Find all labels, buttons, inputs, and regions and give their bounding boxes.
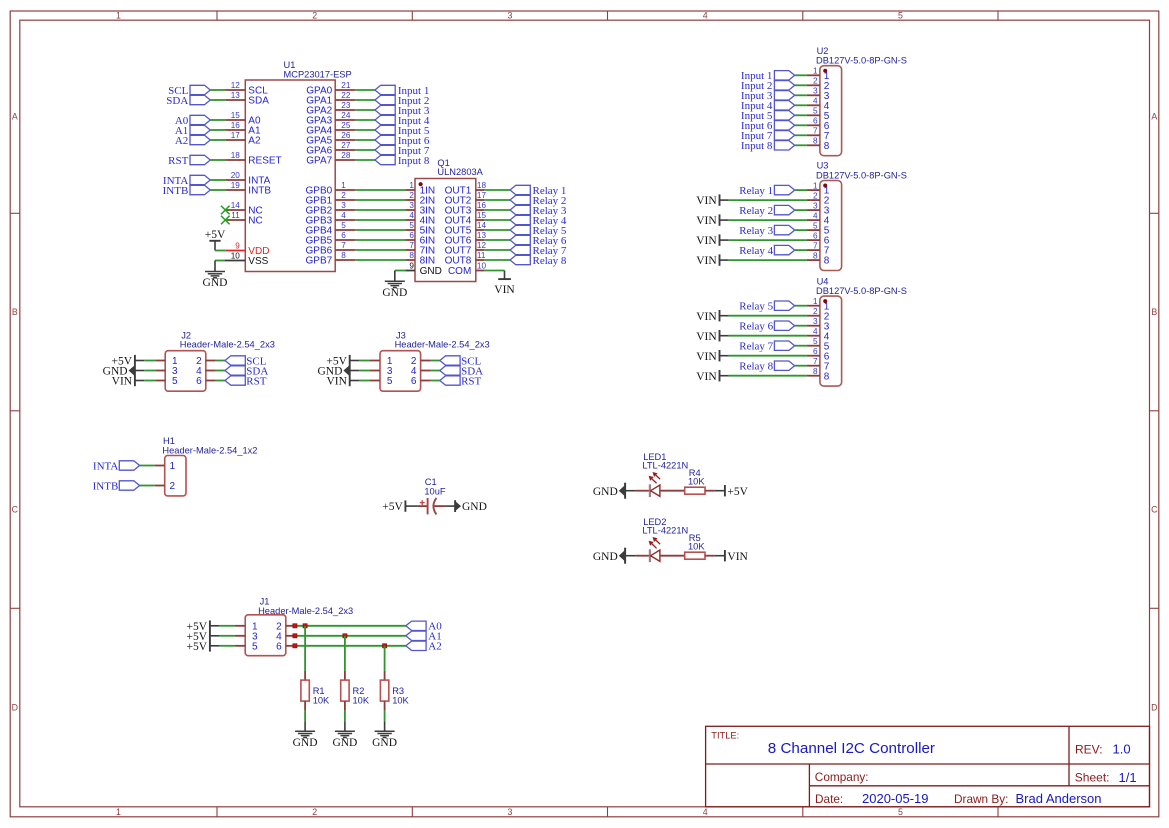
net port Relay 6 — [510, 235, 567, 247]
svg-text:VIN: VIN — [326, 376, 347, 388]
svg-text:2020-05-19: 2020-05-19 — [862, 791, 929, 806]
U1 pin 10 VSS — [225, 260, 246, 262]
U3 pin 4 — [807, 219, 820, 221]
svg-text:Relay 3: Relay 3 — [739, 225, 773, 237]
wire OUT3 to Relay 3 — [484, 209, 510, 211]
svg-text:Relay 5: Relay 5 — [739, 301, 773, 313]
svg-text:28: 28 — [341, 151, 351, 160]
svg-text:Header-Male-2.54_2x3: Header-Male-2.54_2x3 — [180, 340, 275, 350]
svg-text:8 Channel I2C Controller: 8 Channel I2C Controller — [768, 740, 935, 757]
power flag GND at J2 pin 3 — [103, 365, 135, 377]
net port A0 — [406, 621, 442, 633]
U4 pin 4 — [807, 335, 820, 337]
svg-text:4: 4 — [813, 327, 818, 336]
svg-text:VIN: VIN — [696, 371, 717, 383]
junction at J1 pin 6 — [293, 644, 297, 648]
net port Relay 5 at U4 — [739, 301, 794, 313]
svg-text:1: 1 — [813, 181, 818, 190]
svg-text:26: 26 — [341, 131, 351, 140]
svg-text:10K: 10K — [688, 541, 705, 551]
svg-text:VIN: VIN — [696, 235, 717, 247]
wire SDA to U1 — [210, 99, 225, 101]
svg-text:6: 6 — [411, 376, 417, 387]
U4 pin 6 — [807, 355, 820, 357]
wire A1 down to R2 — [344, 636, 346, 671]
net port A1 — [406, 631, 442, 643]
net port INTB at H1 — [93, 480, 140, 492]
svg-text:17: 17 — [477, 191, 487, 200]
svg-text:MCP23017-ESP: MCP23017-ESP — [284, 70, 352, 80]
net port Input 8 at U2 — [741, 140, 795, 152]
Q1 pin 16 OUT3 — [476, 209, 485, 211]
power flag VIN at U3 pin 2 — [696, 194, 719, 207]
net port Relay 7 — [510, 245, 567, 257]
svg-text:SDA: SDA — [248, 96, 269, 107]
svg-text:18: 18 — [477, 181, 487, 190]
svg-text:6: 6 — [813, 117, 818, 126]
U3 pin 5 — [807, 229, 820, 231]
svg-text:1: 1 — [409, 181, 414, 190]
wire LED1 to R4 — [660, 490, 685, 492]
net port Relay 1 — [510, 185, 566, 197]
svg-text:VIN: VIN — [696, 311, 717, 323]
U1 pin 20 INTA — [225, 179, 245, 181]
svg-text:VIN: VIN — [696, 215, 717, 227]
Q1 pin 4 4IN — [405, 219, 415, 221]
svg-text:10K: 10K — [353, 696, 370, 706]
U1 pin 22 GPA1 — [335, 99, 355, 101]
svg-text:7: 7 — [341, 241, 346, 250]
header J2 Header-Male-2.54_2x3 — [165, 330, 275, 391]
svg-text:NC: NC — [248, 216, 262, 227]
svg-text:R3: R3 — [392, 686, 404, 696]
wire A0 to U1 — [210, 119, 225, 121]
svg-text:RST: RST — [461, 375, 481, 387]
svg-text:1.0: 1.0 — [1113, 742, 1131, 757]
Q1 pin 14 OUT5 — [476, 229, 485, 231]
svg-text:1: 1 — [116, 10, 121, 20]
wire Q1 COM to VIN — [484, 271, 504, 279]
power flag VIN at U4 pin 2 — [696, 310, 719, 323]
net port SDA at J2 — [225, 365, 268, 377]
net port Relay 8 at U4 — [739, 361, 794, 373]
svg-text:8: 8 — [813, 251, 818, 260]
wire GPA7 to Input 8 — [355, 159, 375, 161]
wire +5V to J1 — [210, 645, 245, 647]
net port Input 3 at U2 — [741, 90, 795, 102]
wire A2 to U1 — [210, 139, 225, 141]
svg-text:8: 8 — [824, 371, 830, 382]
svg-text:Input 8: Input 8 — [398, 155, 430, 167]
wire OUT7 to Relay 7 — [484, 249, 510, 251]
net port Input 8 — [375, 155, 430, 167]
svg-text:C: C — [1151, 504, 1158, 514]
svg-text:8IN: 8IN — [420, 256, 436, 267]
wire power to J3 — [350, 380, 380, 382]
junction at J1 pin 4 — [293, 634, 297, 638]
wire GPB7 to Q1 8IN — [355, 259, 405, 261]
net port Input 6 — [375, 135, 430, 147]
wire Relay 2 to U3 pin 3 — [795, 209, 807, 211]
net port Relay 5 — [510, 225, 567, 237]
U1 pin 15 A0 — [225, 119, 245, 121]
U4 pin 7 — [807, 365, 820, 367]
wire OUT6 to Relay 6 — [484, 239, 510, 241]
wire J1 pin 2 to A0 — [286, 625, 406, 627]
power flag VIN at U4 pin 6 — [696, 350, 719, 363]
svg-text:+5V: +5V — [205, 229, 226, 241]
svg-text:Brad Anderson: Brad Anderson — [1016, 791, 1102, 806]
net port Input 6 at U2 — [741, 120, 795, 132]
svg-text:Relay 4: Relay 4 — [739, 245, 773, 257]
wire GPB0 to Q1 1IN — [355, 189, 405, 191]
net port Input 4 — [375, 115, 430, 127]
wire INTB to H1 — [140, 485, 165, 487]
svg-text:3: 3 — [341, 201, 346, 210]
svg-text:GND: GND — [420, 266, 442, 277]
net port Input 3 — [375, 105, 430, 117]
header H1 Header-Male-2.54_1x2 — [162, 436, 257, 496]
Q1 pin 8 8IN — [405, 259, 415, 261]
Q1 pin 12 OUT7 — [476, 249, 485, 251]
Q1 pin 3 3IN — [405, 209, 415, 211]
ground symbol at R3 — [372, 731, 397, 749]
wire INTA to H1 — [140, 465, 165, 467]
svg-text:DB127V-5.0-8P-GN-S: DB127V-5.0-8P-GN-S — [816, 286, 907, 296]
svg-text:B: B — [1151, 307, 1157, 317]
wire VIN to U4 pin 2 — [720, 315, 807, 317]
svg-text:A2: A2 — [175, 135, 188, 147]
svg-text:14: 14 — [477, 221, 487, 230]
svg-text:D: D — [1151, 702, 1157, 712]
wire OUT4 to Relay 4 — [484, 219, 510, 221]
net port Relay 7 at U4 — [739, 341, 794, 353]
svg-text:INTA: INTA — [93, 460, 118, 472]
svg-text:1/1: 1/1 — [1119, 770, 1137, 785]
wire GPA6 to Input 7 — [355, 149, 375, 151]
svg-text:Sheet:: Sheet: — [1075, 771, 1110, 785]
svg-text:VIN: VIN — [696, 351, 717, 363]
net port RST at J3 — [440, 375, 482, 387]
svg-text:Relay 8: Relay 8 — [739, 361, 773, 373]
svg-text:VIN: VIN — [696, 255, 717, 267]
wire Input 3 to U2 pin 3 — [795, 94, 807, 96]
svg-text:11: 11 — [231, 211, 240, 220]
wire OUT8 to Relay 8 — [484, 259, 510, 261]
wire LED2 to R5 — [660, 555, 685, 557]
svg-text:GND: GND — [593, 486, 618, 498]
U1 pin 27 GPA6 — [335, 149, 355, 151]
net port SCL at J3 — [440, 355, 482, 367]
U1 pin 25 GPA4 — [335, 129, 355, 131]
svg-text:21: 21 — [341, 81, 351, 90]
svg-text:C: C — [12, 504, 19, 514]
wire +5V to J1 — [210, 625, 245, 627]
svg-text:5: 5 — [387, 376, 393, 387]
svg-text:13: 13 — [231, 91, 241, 100]
U1 pin 13 SDA — [225, 99, 245, 101]
net port Input 2 at U2 — [741, 80, 795, 92]
U1 pin 14 NC (no connect) — [225, 209, 245, 211]
U1 pin 28 GPA7 — [335, 159, 355, 161]
svg-text:Relay 8: Relay 8 — [533, 255, 567, 267]
ground symbol at Q1 — [382, 281, 407, 299]
svg-text:4: 4 — [703, 10, 708, 20]
svg-text:2: 2 — [813, 191, 818, 200]
power flag GND at C1 — [455, 500, 487, 513]
power flag VIN at U3 pin 8 — [696, 254, 719, 267]
net port Input 4 at U2 — [741, 100, 795, 112]
svg-text:4: 4 — [703, 807, 708, 817]
wire Input 6 to U2 pin 6 — [795, 124, 807, 126]
U2 pin 8 — [807, 144, 820, 146]
svg-text:REV:: REV: — [1075, 742, 1103, 756]
svg-text:10uF: 10uF — [424, 486, 446, 496]
company field — [815, 770, 869, 784]
svg-text:23: 23 — [341, 101, 351, 110]
wire GPA4 to Input 5 — [355, 129, 375, 131]
U2 pin 7 — [807, 134, 820, 136]
wire GPA1 to Input 2 — [355, 99, 375, 101]
svg-text:16: 16 — [231, 121, 241, 130]
wire power to J3 — [350, 360, 380, 362]
U1 pin 3 GPB2 — [335, 209, 355, 211]
wire GND to LED1 — [625, 490, 650, 492]
svg-text:7: 7 — [813, 241, 818, 250]
net port INTB — [163, 185, 211, 197]
wire Input 7 to U2 pin 7 — [795, 134, 807, 136]
U1 pin 4 GPB3 — [335, 219, 355, 221]
svg-text:5: 5 — [252, 641, 258, 652]
wire J1 pin 6 to A2 — [286, 645, 406, 647]
Q1 pin 11 OUT8 — [476, 259, 485, 261]
wire power to J2 — [135, 370, 165, 372]
wire R5 to VIN — [705, 555, 725, 557]
power flag VIN at J3 pin 5 — [326, 376, 347, 388]
U1 pin 12 SCL — [225, 89, 245, 91]
svg-text:4: 4 — [341, 211, 346, 220]
U1 pin 6 GPB5 — [335, 239, 355, 241]
power flag +5V at C1 — [382, 500, 405, 513]
Q1 pin 7 7IN — [405, 249, 415, 251]
resistor R3 10K — [380, 671, 409, 711]
wire J2 to RST — [206, 380, 225, 382]
svg-text:B: B — [12, 307, 18, 317]
svg-text:1: 1 — [813, 297, 818, 306]
svg-text:Drawn By:: Drawn By: — [954, 792, 1008, 806]
svg-text:1: 1 — [813, 67, 818, 76]
svg-text:D: D — [12, 702, 18, 712]
svg-text:6: 6 — [276, 641, 282, 652]
wire GPB6 to Q1 7IN — [355, 249, 405, 251]
svg-text:5: 5 — [172, 376, 178, 387]
wire Relay 1 to U3 pin 1 — [795, 189, 807, 191]
svg-text:U2: U2 — [817, 46, 829, 56]
U1 pin 23 GPA2 — [335, 109, 355, 111]
svg-text:3: 3 — [813, 317, 818, 326]
U4 pin 1 — [807, 305, 820, 307]
svg-text:A2: A2 — [428, 641, 441, 653]
svg-text:2: 2 — [341, 191, 346, 200]
svg-text:3: 3 — [409, 201, 414, 210]
wire GPA2 to Input 3 — [355, 109, 375, 111]
Q1 pin 13 OUT6 — [476, 239, 485, 241]
resistor R4 10K — [685, 468, 706, 494]
U1 pin 2 GPB1 — [335, 199, 355, 201]
title text — [711, 731, 935, 757]
svg-text:17: 17 — [231, 131, 241, 140]
ground symbol at R2 — [332, 731, 357, 749]
U3 pin 7 — [807, 249, 820, 251]
Q1 pin 9 GND — [405, 270, 415, 272]
IC U1 MCP23017-ESP — [221, 60, 355, 271]
wire VIN to U3 pin 6 — [720, 239, 807, 241]
svg-text:8: 8 — [813, 137, 818, 146]
Q1 pin 2 2IN — [405, 199, 415, 201]
power flag +5V at J1 — [187, 641, 208, 653]
U2 pin 6 — [807, 124, 820, 126]
IC Q1 ULN2803A — [405, 158, 486, 282]
Q1 pin 18 OUT1 — [476, 189, 485, 191]
wire J3 to SCL — [421, 360, 440, 362]
U1 pin 7 GPB6 — [335, 249, 355, 251]
wire A2 down to R3 — [384, 646, 386, 671]
svg-text:INTB: INTB — [93, 480, 119, 492]
net port Input 7 at U2 — [741, 130, 795, 142]
svg-text:+5V: +5V — [187, 641, 208, 653]
U1 pin 17 A2 — [225, 139, 245, 141]
wire Relay 8 to U4 pin 7 — [795, 365, 807, 367]
U4 pin 8 — [807, 375, 820, 377]
power flag VIN at J2 pin 5 — [112, 376, 133, 388]
svg-text:DB127V-5.0-8P-GN-S: DB127V-5.0-8P-GN-S — [816, 56, 907, 66]
svg-text:INTB: INTB — [248, 186, 271, 197]
svg-text:U4: U4 — [817, 276, 829, 286]
svg-text:VIN: VIN — [494, 284, 515, 296]
svg-text:GND: GND — [382, 287, 407, 299]
wire OUT2 to Relay 2 — [484, 199, 510, 201]
svg-text:9: 9 — [235, 242, 240, 251]
net port Input 5 — [375, 125, 430, 137]
wire Relay 6 to U4 pin 3 — [795, 325, 807, 327]
Q1 pin 15 OUT4 — [476, 219, 485, 221]
U2 pin 4 — [807, 104, 820, 106]
resistor R5 10K — [685, 533, 706, 559]
net port SCL — [168, 85, 210, 97]
net port Relay 8 — [510, 255, 567, 267]
net port Input 1 at U2 — [741, 70, 795, 82]
svg-text:Relay 7: Relay 7 — [739, 341, 773, 353]
U1 pin 11 NC (no connect) — [225, 219, 245, 221]
power bar at J3 left — [349, 355, 351, 386]
svg-text:6: 6 — [813, 347, 818, 356]
svg-text:Relay 1: Relay 1 — [739, 185, 773, 197]
svg-text:VIN: VIN — [696, 331, 717, 343]
svg-text:GPA7: GPA7 — [306, 156, 332, 167]
wire RST to U1 — [210, 159, 225, 161]
power flag GND at LED1 — [593, 483, 625, 499]
U1 pin 26 GPA5 — [335, 139, 355, 141]
wire Relay 4 to U3 pin 7 — [795, 249, 807, 251]
svg-text:15: 15 — [231, 111, 241, 120]
svg-text:8: 8 — [824, 256, 830, 267]
svg-text:2: 2 — [409, 191, 414, 200]
header J3 Header-Male-2.54_2x3 — [380, 330, 490, 391]
capacitor C1 10uF — [418, 477, 446, 514]
svg-text:8: 8 — [409, 251, 414, 260]
wire R1 to ground — [304, 710, 306, 731]
svg-text:5: 5 — [898, 10, 903, 20]
power flag VIN at U4 pin 4 — [696, 330, 719, 343]
LED LED1 LTL-4221N — [642, 452, 688, 497]
power flag VIN at U3 pin 4 — [696, 214, 719, 227]
svg-text:8: 8 — [824, 141, 830, 152]
svg-text:Relay 2: Relay 2 — [739, 205, 773, 217]
svg-text:5: 5 — [898, 807, 903, 817]
power flag VIN at R5 — [725, 550, 749, 563]
wire INTA to U1 — [210, 179, 225, 181]
svg-text:19: 19 — [231, 181, 241, 190]
net port SDA — [166, 95, 210, 107]
svg-text:1: 1 — [116, 807, 121, 817]
U2 pin 5 — [807, 114, 820, 116]
net port Relay 2 at U3 — [739, 205, 794, 217]
svg-text:24: 24 — [341, 111, 351, 120]
power flag +5V at R4 — [725, 485, 749, 498]
wire GND to LED2 — [625, 555, 650, 557]
power flag +5V at J2 pin 1 — [112, 356, 133, 368]
connector U4 DB127V-5.0-8P-GN-S — [807, 276, 907, 386]
net port Input 7 — [375, 145, 430, 157]
svg-text:A: A — [1151, 112, 1157, 122]
U1 pin 19 INTB — [225, 189, 245, 191]
svg-text:5: 5 — [813, 337, 818, 346]
junction A0 to R1 — [303, 624, 307, 628]
svg-text:RST: RST — [246, 375, 266, 387]
connector U3 DB127V-5.0-8P-GN-S — [807, 161, 907, 271]
svg-text:+5V: +5V — [382, 501, 403, 513]
svg-text:3: 3 — [507, 10, 512, 20]
wire GPB2 to Q1 3IN — [355, 209, 405, 211]
U3 pin 6 — [807, 239, 820, 241]
junction A1 to R2 — [343, 634, 347, 638]
svg-text:2: 2 — [312, 10, 317, 20]
svg-text:7: 7 — [813, 357, 818, 366]
power flag GND at J3 pin 3 — [317, 365, 349, 377]
svg-text:+5V: +5V — [727, 486, 748, 498]
resistor R1 10K — [301, 671, 330, 711]
svg-text:7: 7 — [813, 127, 818, 136]
svg-text:10: 10 — [477, 262, 487, 271]
svg-text:Relay 6: Relay 6 — [739, 321, 773, 333]
svg-text:R2: R2 — [353, 686, 365, 696]
ground symbol at U1 VSS — [203, 272, 228, 290]
net port Relay 2 — [510, 195, 566, 207]
wire Relay 3 to U3 pin 5 — [795, 229, 807, 231]
wire J1 pin 4 to A1 — [286, 635, 406, 637]
svg-text:LTL-4221N: LTL-4221N — [642, 461, 688, 471]
svg-text:VIN: VIN — [696, 195, 717, 207]
wire SCL to U1 — [210, 89, 225, 91]
net port RST — [168, 155, 210, 167]
svg-text:VSS: VSS — [248, 256, 268, 267]
svg-text:5: 5 — [813, 107, 818, 116]
wire +5V to J1 — [210, 635, 245, 637]
power flag GND at LED2 — [593, 548, 625, 564]
svg-text:GND: GND — [593, 551, 618, 563]
wire INTB to U1 — [210, 189, 225, 191]
net port INTA — [163, 175, 210, 187]
